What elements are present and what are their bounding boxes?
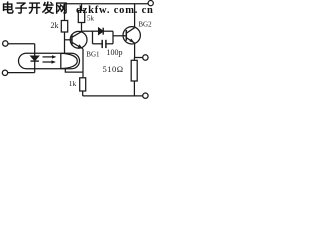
terminal mid-right bbox=[143, 55, 148, 60]
node left of diode/cap loop bbox=[92, 31, 94, 44]
transistor BG1 bbox=[70, 31, 87, 48]
svg-text:1k: 1k bbox=[69, 79, 77, 88]
resistor 510 bbox=[133, 58, 135, 61]
wire bottom rail bbox=[83, 95, 143, 97]
resistor 2k bbox=[64, 4, 66, 21]
svg-text:100p: 100p bbox=[107, 48, 123, 57]
light arrows bbox=[43, 56, 53, 58]
wire to BG2 base bbox=[113, 35, 126, 37]
terminal bottom-left bbox=[2, 70, 7, 75]
svg-text:电子开发网: 电子开发网 bbox=[2, 1, 69, 16]
phototransistor body arc bbox=[61, 53, 78, 68]
svg-text:5k: 5k bbox=[87, 15, 95, 23]
LED in optocoupler bbox=[34, 44, 36, 56]
wire BG1 emitter down bbox=[82, 49, 84, 72]
transistor BG2 bbox=[123, 27, 140, 44]
optocoupler capsule bbox=[19, 53, 80, 68]
svg-text:2k: 2k bbox=[51, 21, 59, 30]
svg-text:BG1: BG1 bbox=[86, 51, 100, 59]
terminal top-right bbox=[148, 1, 153, 6]
wire BG2 collector up bbox=[134, 4, 136, 28]
wire top-left bbox=[8, 43, 35, 45]
wire bottom-left bbox=[8, 72, 35, 74]
node right of loop bbox=[112, 31, 114, 44]
phototransistor chord bbox=[60, 53, 62, 68]
wire BG2 emitter down bbox=[134, 43, 136, 58]
svg-text:510Ω: 510Ω bbox=[103, 64, 124, 74]
wire BG1 collector to node bbox=[82, 30, 93, 32]
terminal top-left bbox=[3, 41, 8, 46]
svg-text:BG2: BG2 bbox=[138, 21, 152, 29]
resistor 5k bbox=[81, 4, 83, 11]
diode D1 bbox=[93, 30, 99, 32]
wire BG1 base bbox=[65, 39, 72, 41]
wire top rail bbox=[65, 3, 149, 5]
wire photo emitter bbox=[65, 69, 83, 72]
terminal bottom-right bbox=[143, 93, 148, 98]
wire to mid-right terminal bbox=[135, 57, 143, 59]
capacitor 100p bbox=[93, 43, 102, 45]
resistor 1k bbox=[82, 72, 84, 78]
